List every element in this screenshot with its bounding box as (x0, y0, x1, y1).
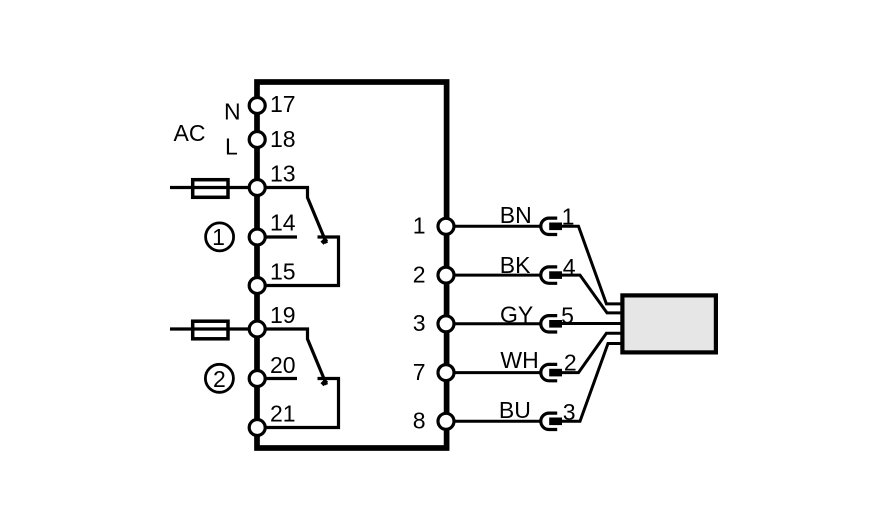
svg-text:14: 14 (270, 210, 296, 236)
svg-text:BK: BK (500, 252, 531, 278)
svg-text:GY: GY (500, 301, 533, 327)
svg-text:1: 1 (562, 203, 575, 229)
svg-text:WH: WH (500, 347, 538, 373)
svg-text:1: 1 (212, 224, 225, 250)
svg-text:AC: AC (174, 120, 206, 146)
svg-text:2: 2 (413, 261, 426, 287)
svg-text:BN: BN (500, 202, 532, 228)
svg-text:BU: BU (499, 397, 531, 423)
svg-text:N: N (224, 99, 241, 125)
svg-text:18: 18 (270, 126, 296, 152)
svg-text:4: 4 (563, 254, 576, 280)
svg-text:13: 13 (270, 161, 296, 187)
svg-text:7: 7 (413, 359, 426, 385)
svg-text:2: 2 (213, 366, 226, 392)
svg-text:1: 1 (413, 213, 426, 239)
svg-text:2: 2 (564, 350, 577, 376)
svg-text:19: 19 (270, 302, 296, 328)
svg-text:8: 8 (413, 408, 426, 434)
svg-text:15: 15 (270, 259, 296, 285)
svg-text:20: 20 (270, 352, 296, 378)
svg-text:3: 3 (413, 310, 426, 336)
svg-text:3: 3 (563, 399, 576, 425)
svg-text:17: 17 (270, 91, 296, 117)
svg-text:5: 5 (561, 302, 574, 328)
svg-text:L: L (225, 134, 238, 160)
svg-text:21: 21 (270, 401, 296, 427)
